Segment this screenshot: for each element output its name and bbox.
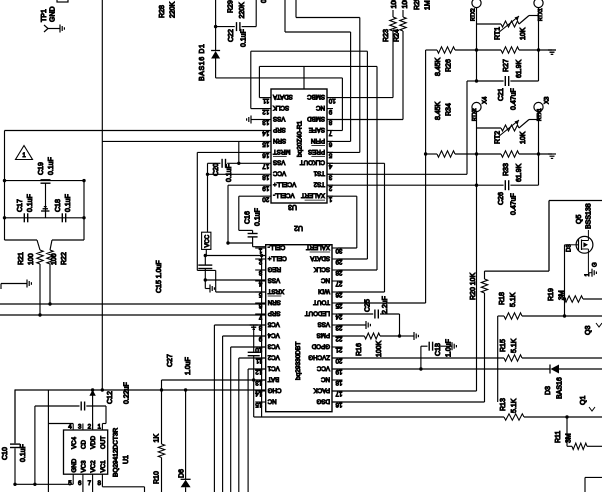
svg-text:CD: CD bbox=[81, 440, 88, 449]
svg-text:1K: 1K bbox=[154, 434, 161, 443]
svg-text:6: 6 bbox=[78, 480, 82, 487]
svg-text:C22: C22 bbox=[228, 29, 235, 42]
svg-text:SRP: SRP bbox=[273, 126, 286, 133]
svg-text:CELL+: CELL+ bbox=[267, 254, 286, 261]
svg-text:7: 7 bbox=[328, 130, 332, 137]
svg-text:GND: GND bbox=[71, 458, 78, 472]
svg-text:VCC: VCC bbox=[205, 234, 211, 247]
svg-text:1M: 1M bbox=[425, 0, 432, 10]
svg-text:2: 2 bbox=[328, 184, 332, 191]
svg-text:0.47uF: 0.47uF bbox=[511, 88, 518, 110]
svg-text:1.0uF: 1.0uF bbox=[446, 339, 453, 357]
svg-text:100K: 100K bbox=[376, 340, 383, 357]
svg-text:3M: 3M bbox=[566, 433, 573, 443]
svg-text:0.1uF: 0.1uF bbox=[241, 29, 248, 47]
svg-text:VSS: VSS bbox=[273, 115, 285, 122]
svg-text:C15 1.0uF: C15 1.0uF bbox=[156, 260, 163, 293]
svg-text:SDATA: SDATA bbox=[272, 93, 293, 100]
svg-text:LEDOUT: LEDOUT bbox=[305, 309, 330, 316]
svg-text:NC: NC bbox=[321, 375, 330, 382]
svg-text:VSS: VSS bbox=[273, 159, 285, 166]
svg-text:X3: X3 bbox=[545, 96, 551, 104]
svg-text:VSS: VSS bbox=[318, 320, 330, 327]
svg-text:R28: R28 bbox=[159, 5, 166, 18]
svg-text:BAT: BAT bbox=[267, 375, 279, 382]
svg-text:VC4: VC4 bbox=[267, 331, 280, 338]
svg-text:3: 3 bbox=[78, 424, 82, 431]
svg-text:5: 5 bbox=[328, 152, 332, 159]
svg-text:19: 19 bbox=[335, 368, 342, 375]
svg-text:8: 8 bbox=[97, 480, 101, 487]
svg-text:0.47uF: 0.47uF bbox=[511, 193, 518, 215]
svg-text:R25: R25 bbox=[414, 0, 421, 10]
svg-text:3: 3 bbox=[328, 173, 332, 180]
svg-text:R19: R19 bbox=[548, 288, 555, 301]
svg-text:21: 21 bbox=[335, 346, 342, 353]
svg-text:SCLK: SCLK bbox=[313, 265, 330, 272]
svg-text:17: 17 bbox=[335, 390, 342, 397]
svg-text:C16: C16 bbox=[245, 211, 252, 224]
svg-text:0.1uF: 0.1uF bbox=[27, 194, 34, 212]
svg-text:NC: NC bbox=[267, 397, 276, 404]
svg-text:VC2: VC2 bbox=[90, 460, 97, 473]
svg-text:2: 2 bbox=[88, 424, 92, 431]
svg-text:0.1uF: 0.1uF bbox=[48, 157, 55, 175]
svg-text:R27: R27 bbox=[503, 59, 510, 72]
svg-text:VC3: VC3 bbox=[81, 460, 88, 473]
svg-text:Q3: Q3 bbox=[585, 326, 592, 335]
svg-text:220K: 220K bbox=[170, 1, 177, 18]
svg-text:61.9K: 61.9K bbox=[516, 163, 523, 182]
svg-text:TS2: TS2 bbox=[313, 181, 325, 188]
svg-text:D3: D3 bbox=[545, 386, 552, 395]
svg-text:VC1: VC1 bbox=[267, 364, 280, 371]
svg-text:100: 100 bbox=[402, 0, 409, 9]
svg-text:10: 10 bbox=[328, 97, 335, 104]
svg-text:TOUT: TOUT bbox=[313, 298, 330, 305]
svg-text:27: 27 bbox=[335, 280, 342, 287]
svg-text:0.1uF: 0.1uF bbox=[255, 208, 262, 226]
svg-text:C19: C19 bbox=[38, 162, 45, 175]
svg-text:0.1uF: 0.1uF bbox=[261, 0, 268, 3]
svg-text:Q5: Q5 bbox=[576, 215, 583, 224]
svg-text:PMS: PMS bbox=[317, 331, 330, 338]
svg-text:VC5: VC5 bbox=[267, 320, 280, 327]
svg-text:bq29330DBT: bq29330DBT bbox=[295, 342, 302, 380]
svg-text:5.1K: 5.1K bbox=[511, 338, 518, 353]
svg-text:VCC: VCC bbox=[272, 170, 286, 177]
svg-text:RTX2: RTX2 bbox=[471, 8, 477, 21]
svg-text:C12: C12 bbox=[107, 391, 114, 404]
svg-text:8.45K: 8.45K bbox=[435, 101, 442, 120]
svg-text:REG: REG bbox=[268, 265, 282, 272]
svg-text:CELL-: CELL- bbox=[268, 243, 286, 250]
svg-text:VC4: VC4 bbox=[71, 436, 78, 449]
svg-text:G: G bbox=[593, 262, 599, 267]
svg-text:SMBD: SMBD bbox=[307, 115, 325, 122]
svg-text:2.2uF: 2.2uF bbox=[382, 296, 389, 314]
svg-text:VC2: VC2 bbox=[267, 353, 280, 360]
svg-text:CLKOUT: CLKOUT bbox=[300, 159, 325, 166]
svg-text:0.1uF: 0.1uF bbox=[226, 164, 233, 182]
svg-text:RTX2: RTX2 bbox=[472, 108, 478, 121]
svg-text:5: 5 bbox=[68, 480, 72, 487]
svg-text:R23: R23 bbox=[383, 29, 390, 42]
svg-text:Q1: Q1 bbox=[580, 396, 587, 405]
svg-text:BAS16: BAS16 bbox=[557, 377, 564, 399]
svg-text:R33: R33 bbox=[503, 163, 510, 176]
svg-text:R24: R24 bbox=[394, 29, 401, 42]
svg-text:U2: U2 bbox=[294, 224, 303, 231]
svg-text:VCC: VCC bbox=[316, 364, 330, 371]
svg-text:WDI: WDI bbox=[318, 287, 330, 294]
svg-text:VC1: VC1 bbox=[100, 460, 107, 473]
svg-text:220K: 220K bbox=[239, 2, 246, 19]
svg-text:VDD: VDD bbox=[90, 435, 97, 449]
svg-text:XALERT: XALERT bbox=[301, 192, 325, 199]
svg-text:BQ29412DCT3R: BQ29412DCT3R bbox=[113, 428, 120, 477]
svg-text:4: 4 bbox=[68, 424, 72, 431]
svg-text:1.0uF: 1.0uF bbox=[185, 357, 192, 375]
svg-text:R16: R16 bbox=[356, 343, 363, 356]
svg-text:R26: R26 bbox=[446, 59, 453, 72]
svg-text:TP1: TP1 bbox=[41, 9, 48, 22]
svg-text:SAFE: SAFE bbox=[309, 126, 325, 133]
svg-text:R18: R18 bbox=[499, 292, 506, 305]
svg-text:BAS16 D1: BAS16 D1 bbox=[199, 44, 206, 82]
svg-text:SRN: SRN bbox=[268, 298, 281, 305]
svg-text:1: 1 bbox=[22, 153, 26, 159]
svg-text:XALERT: XALERT bbox=[306, 243, 330, 250]
svg-text:C21: C21 bbox=[498, 88, 505, 101]
svg-text:C26: C26 bbox=[498, 192, 505, 205]
svg-text:C25: C25 bbox=[365, 299, 372, 312]
svg-text:C27: C27 bbox=[167, 354, 174, 367]
svg-text:NC: NC bbox=[316, 104, 325, 111]
svg-text:RT1: RT1 bbox=[495, 27, 502, 40]
svg-text:R22: R22 bbox=[61, 252, 68, 265]
svg-text:100: 100 bbox=[28, 253, 35, 265]
svg-text:18: 18 bbox=[335, 379, 342, 386]
svg-text:10K: 10K bbox=[520, 27, 527, 40]
svg-text:VCELL+: VCELL+ bbox=[273, 181, 297, 188]
svg-text:R21: R21 bbox=[18, 252, 25, 265]
svg-text:100: 100 bbox=[391, 0, 398, 9]
svg-text:5.1K: 5.1K bbox=[510, 292, 517, 307]
svg-text:RT2: RT2 bbox=[495, 131, 502, 144]
svg-text:C17: C17 bbox=[17, 199, 24, 212]
svg-text:U3: U3 bbox=[288, 203, 297, 210]
svg-text:ZVCHG: ZVCHG bbox=[308, 353, 330, 360]
svg-text:GPOD: GPOD bbox=[311, 342, 330, 349]
svg-text:0.1uF: 0.1uF bbox=[20, 444, 27, 462]
svg-text:R13: R13 bbox=[500, 398, 507, 411]
svg-text:CHG: CHG bbox=[268, 386, 282, 393]
svg-text:bq20Z40-R1: bq20Z40-R1 bbox=[297, 120, 304, 157]
svg-text:8: 8 bbox=[328, 119, 332, 126]
svg-text:5.1K: 5.1K bbox=[511, 398, 518, 413]
svg-text:7: 7 bbox=[88, 480, 92, 487]
svg-text:X4: X4 bbox=[483, 96, 489, 104]
svg-text:VC3: VC3 bbox=[267, 342, 280, 349]
svg-text:R34: R34 bbox=[446, 103, 453, 116]
svg-text:C10: C10 bbox=[2, 447, 9, 460]
svg-text:1: 1 bbox=[258, 247, 262, 254]
svg-text:SCLK: SCLK bbox=[272, 104, 289, 111]
svg-text:100: 100 bbox=[51, 253, 58, 265]
svg-text:DSG: DSG bbox=[316, 397, 330, 404]
svg-text:SDATA: SDATA bbox=[309, 254, 330, 261]
svg-text:U1: U1 bbox=[123, 455, 130, 464]
svg-text:0.22uF: 0.22uF bbox=[124, 382, 131, 404]
svg-text:PFIN: PFIN bbox=[311, 137, 325, 144]
svg-text:R15: R15 bbox=[500, 339, 507, 352]
svg-text:C13: C13 bbox=[435, 343, 442, 356]
svg-text:NC: NC bbox=[321, 276, 330, 283]
svg-text:VSS: VSS bbox=[268, 276, 280, 283]
svg-text:R10: R10 bbox=[154, 471, 161, 484]
svg-text:3M: 3M bbox=[559, 290, 566, 300]
svg-text:PRES: PRES bbox=[308, 148, 325, 155]
svg-text:OUT: OUT bbox=[100, 436, 107, 449]
svg-text:D6: D6 bbox=[179, 469, 186, 478]
svg-text:61.9K: 61.9K bbox=[516, 59, 523, 78]
svg-text:20: 20 bbox=[335, 357, 342, 364]
svg-text:VCELL-: VCELL- bbox=[273, 192, 295, 199]
svg-text:GND: GND bbox=[50, 6, 57, 22]
svg-text:SRN: SRN bbox=[273, 137, 286, 144]
svg-text:PACK: PACK bbox=[313, 386, 330, 393]
svg-text:R29: R29 bbox=[228, 0, 235, 13]
svg-text:10K: 10K bbox=[520, 131, 527, 144]
svg-text:SMBC: SMBC bbox=[307, 93, 325, 100]
svg-text:16: 16 bbox=[335, 401, 342, 408]
svg-text:BSS138: BSS138 bbox=[586, 203, 593, 229]
svg-text:9: 9 bbox=[328, 108, 332, 115]
svg-text:C18: C18 bbox=[55, 199, 62, 212]
svg-text:8.45K: 8.45K bbox=[435, 57, 442, 76]
svg-text:0.1uF: 0.1uF bbox=[65, 194, 72, 212]
svg-text:XRST: XRST bbox=[267, 287, 284, 294]
svg-text:SRP: SRP bbox=[268, 309, 281, 316]
svg-text:6: 6 bbox=[328, 141, 332, 148]
svg-text:1: 1 bbox=[97, 424, 101, 431]
svg-text:R11: R11 bbox=[555, 431, 562, 443]
svg-text:MRST: MRST bbox=[273, 148, 291, 155]
svg-text:TS1: TS1 bbox=[313, 170, 325, 177]
